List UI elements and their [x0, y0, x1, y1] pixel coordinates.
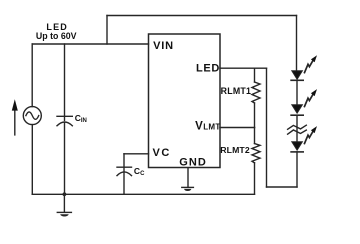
svg-text:Up to 60V: Up to 60V	[36, 31, 77, 41]
LED D3 emission arrow	[305, 126, 318, 143]
junction dot	[63, 192, 67, 196]
LED D1	[291, 71, 303, 81]
capacitor CC	[117, 167, 132, 194]
wire top bypass (VIN node to LED string anode)	[107, 16, 297, 45]
wire VC pin	[124, 154, 149, 172]
svg-text:RLMT2: RLMT2	[220, 145, 250, 155]
wire LED return	[267, 68, 298, 187]
node label LED Up to 60V	[36, 22, 77, 41]
svg-text:RLMT1: RLMT1	[221, 86, 252, 96]
op-amp U1 (LED driver IC body)	[149, 34, 221, 168]
wire LED pin	[220, 67, 267, 69]
arrow current direction	[12, 99, 18, 135]
current source I1 (AC)	[23, 44, 41, 194]
svg-text:LED: LED	[196, 63, 220, 75]
svg-text:LMT: LMT	[203, 122, 220, 131]
svg-text:VC: VC	[153, 147, 171, 159]
ground symbol left	[57, 194, 71, 216]
LED D3	[291, 142, 303, 152]
wire input rail to VIN	[32, 43, 148, 45]
resistor RLMT2	[252, 128, 260, 195]
ground symbol GND pin	[182, 168, 194, 191]
pin VLMT	[195, 120, 220, 132]
ground rail	[32, 193, 254, 195]
svg-text:VIN: VIN	[153, 40, 174, 52]
svg-text:IN: IN	[81, 118, 87, 124]
svg-text:GND: GND	[179, 157, 207, 169]
LED D2 emission arrow	[305, 89, 318, 106]
LED D1 emission arrow	[305, 55, 318, 72]
LED D2	[291, 105, 303, 116]
wire VLMT pin	[220, 127, 255, 129]
svg-text:C: C	[140, 171, 145, 177]
resistor RLMT1	[252, 68, 260, 127]
label CC	[134, 166, 145, 177]
svg-text:V: V	[195, 120, 203, 132]
wire LED string vertical	[296, 16, 299, 188]
label CIN	[75, 113, 87, 124]
capacitor CIN	[57, 44, 72, 194]
break marks (more LEDs)	[288, 125, 307, 134]
